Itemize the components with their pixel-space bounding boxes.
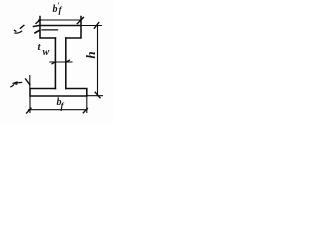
arrowhead bf right (83, 108, 87, 112)
arrowhead b'f right (77, 17, 83, 23)
dimension line b'f (39, 19, 82, 21)
extension line h top (81, 25, 102, 27)
arrowhead bf left (27, 108, 31, 113)
extension line bf left (29, 96, 31, 113)
tf tiny label arrow (left) (15, 81, 22, 84)
t'f tiny label marks (left, clipped text) (20, 25, 24, 28)
label h (rotated) (84, 49, 96, 61)
t'f interior line (42, 29, 58, 31)
dimension line bf (29, 109, 88, 111)
label tw (38, 42, 41, 53)
extension line bf right (86, 96, 88, 113)
tf arrow (26, 79, 30, 85)
arrowhead h top (94, 23, 98, 29)
dimension line h (97, 26, 99, 96)
tf extension stub above bottom flange (29, 76, 31, 89)
label b'f (53, 2, 60, 15)
web left edge (54, 38, 56, 89)
web right edge (65, 38, 67, 89)
tw arrow left (52, 62, 56, 64)
tw leader line (50, 61, 72, 63)
extension line h bottom (87, 95, 103, 97)
tw arrow right (66, 60, 70, 62)
label bf (57, 98, 62, 108)
t'f arrow upper (34, 25, 40, 26)
arrowhead b'f left (36, 20, 40, 24)
arrowhead h bottom (95, 92, 100, 98)
t'f arrow lower (35, 30, 39, 33)
bottom flange outline (30, 89, 87, 97)
top flange outline (40, 17, 81, 39)
